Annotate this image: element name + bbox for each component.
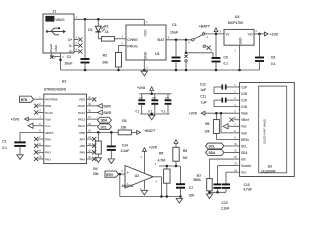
- svg-text:PA1: PA1: [45, 144, 51, 148]
- svg-text:PA15: PA15: [78, 104, 85, 108]
- svg-text:SCL: SCL: [241, 144, 247, 148]
- svg-text:4.7M: 4.7M: [158, 159, 166, 163]
- svg-text:SWC: SWC: [103, 104, 112, 108]
- svg-text:RES#: RES#: [241, 138, 249, 142]
- svg-text:Shield: Shield: [49, 44, 53, 53]
- svg-text:+2V8: +2V8: [270, 32, 278, 36]
- svg-text:Vbat: Vbat: [241, 112, 248, 116]
- svg-text:BTN: BTN: [21, 98, 28, 102]
- svg-text:R6: R6: [183, 149, 187, 153]
- svg-text:C5: C5: [152, 96, 156, 100]
- svg-text:VCC: VCC: [144, 29, 148, 37]
- svg-text:VI: VI: [225, 33, 228, 37]
- svg-text:C3: C3: [172, 23, 176, 27]
- svg-text:D1: D1: [88, 28, 92, 32]
- svg-text:SDA: SDA: [101, 119, 108, 123]
- svg-text:VBref: VBref: [241, 118, 250, 122]
- svg-text:2.2uF: 2.2uF: [121, 149, 131, 153]
- svg-text:0.1: 0.1: [271, 62, 276, 66]
- svg-text:SDA: SDA: [241, 151, 248, 155]
- svg-text:10k: 10k: [204, 129, 210, 133]
- svg-text:PA12: PA12: [78, 118, 85, 122]
- svg-text:10k: 10k: [121, 125, 127, 129]
- svg-text:R2: R2: [103, 54, 107, 58]
- svg-text:PB9: PB9: [45, 104, 51, 108]
- svg-text:0.1: 0.1: [2, 146, 7, 150]
- svg-text:GND: GND: [54, 44, 58, 51]
- svg-text:C7: C7: [189, 186, 193, 190]
- svg-text:SCL: SCL: [209, 144, 215, 148]
- svg-text:SWD: SWD: [103, 111, 112, 115]
- svg-text:PB0: PB0: [79, 131, 85, 135]
- svg-text:C2P: C2P: [241, 85, 248, 89]
- svg-text:PA4: PA4: [80, 157, 86, 161]
- svg-text:1uF: 1uF: [200, 88, 206, 92]
- svg-text:Vdd: Vdd: [45, 118, 51, 122]
- svg-text:2.2uF: 2.2uF: [221, 207, 231, 211]
- svg-text:C8: C8: [271, 56, 275, 60]
- svg-text:5G: 5G: [183, 156, 188, 160]
- svg-text:R3: R3: [122, 119, 126, 123]
- svg-text:BAT: BAT: [158, 38, 166, 42]
- svg-text:VO: VO: [248, 33, 253, 37]
- svg-text:C1P: C1P: [241, 99, 248, 103]
- svg-text:C9: C9: [165, 96, 169, 100]
- svg-text:C13: C13: [244, 183, 250, 187]
- svg-text:PC15: PC15: [45, 111, 53, 115]
- svg-text:AD8541: AD8541: [122, 184, 134, 188]
- svg-text:C14: C14: [122, 143, 128, 147]
- svg-text:PA6: PA6: [80, 144, 86, 148]
- svg-text:0.1: 0.1: [223, 62, 228, 66]
- svg-text:C2: C2: [67, 55, 71, 59]
- svg-text:GND: GND: [238, 37, 242, 45]
- svg-text:BTN: BTN: [106, 173, 113, 177]
- svg-text:+BATT: +BATT: [144, 129, 156, 133]
- svg-text:+2V8: +2V8: [11, 118, 19, 122]
- svg-text:C4: C4: [139, 96, 143, 100]
- svg-text:Vss: Vss: [241, 125, 247, 129]
- svg-text:C1: C1: [2, 139, 6, 143]
- svg-text:SCL: SCL: [101, 125, 107, 129]
- svg-text:MCP1700: MCP1700: [228, 21, 243, 25]
- svg-text:R1: R1: [104, 25, 108, 29]
- svg-text:0.1: 0.1: [161, 110, 165, 114]
- svg-text:20k: 20k: [102, 61, 108, 65]
- svg-text:1k: 1k: [105, 30, 109, 34]
- svg-text:D-: D-: [69, 44, 72, 48]
- svg-text:STM32G031F8: STM32G031F8: [44, 88, 66, 92]
- svg-text:D+: D+: [68, 38, 72, 42]
- svg-text:+2V8: +2V8: [149, 146, 157, 150]
- svg-text:+2V8: +2V8: [137, 86, 145, 90]
- svg-text:PA11: PA11: [78, 124, 85, 128]
- svg-text:Vcomh: Vcomh: [241, 164, 251, 168]
- svg-text:C6: C6: [223, 56, 227, 60]
- svg-text:D3: D3: [268, 164, 272, 168]
- svg-text:E2: E2: [62, 80, 66, 84]
- svg-text:R4: R4: [93, 167, 97, 171]
- svg-text:+BATT: +BATT: [199, 25, 211, 29]
- svg-text:560k: 560k: [193, 178, 200, 182]
- svg-text:PROG: PROG: [127, 45, 138, 49]
- svg-text:U2: U2: [135, 174, 139, 178]
- svg-text:J1: J1: [52, 10, 56, 14]
- svg-text:PA5: PA5: [80, 151, 86, 155]
- svg-text:PA7: PA7: [80, 137, 86, 141]
- svg-text:1uF: 1uF: [201, 101, 207, 105]
- svg-text:PA2: PA2: [45, 151, 51, 155]
- svg-text:PB7/PB8: PB7/PB8: [45, 98, 57, 102]
- svg-text:Vdd: Vdd: [241, 131, 247, 135]
- svg-text:PA13: PA13: [78, 111, 85, 115]
- svg-text:10uF: 10uF: [170, 30, 179, 34]
- svg-text:C10: C10: [222, 201, 228, 205]
- svg-text:C11: C11: [200, 95, 206, 99]
- svg-text:PA0: PA0: [45, 137, 51, 141]
- svg-text:C12: C12: [200, 83, 206, 87]
- svg-text:VBUS: VBUS: [55, 18, 65, 22]
- svg-text:C2N: C2N: [241, 92, 248, 96]
- svg-text:U1: U1: [155, 52, 160, 56]
- svg-text:10uF: 10uF: [64, 61, 73, 65]
- svg-text:Vcc: Vcc: [241, 171, 247, 175]
- svg-text:C1N: C1N: [241, 105, 248, 109]
- svg-text:R8: R8: [205, 122, 209, 126]
- svg-text:U3: U3: [235, 15, 240, 19]
- svg-text:OLED049: OLED049: [261, 169, 275, 173]
- svg-text:NRST: NRST: [45, 131, 53, 135]
- svg-text:CHRG: CHRG: [127, 38, 138, 42]
- svg-text:4.7uF: 4.7uF: [243, 187, 253, 191]
- svg-text:+2V8: +2V8: [189, 111, 197, 115]
- svg-text:OLED 0.49” 64x32: OLED 0.49” 64x32: [263, 119, 267, 144]
- svg-text:200: 200: [189, 194, 195, 198]
- svg-text:Vss: Vss: [45, 124, 51, 128]
- svg-text:0.1: 0.1: [135, 110, 139, 114]
- svg-text:R7: R7: [197, 174, 201, 178]
- svg-text:20k: 20k: [93, 172, 99, 176]
- svg-text:PB3: PB3: [79, 98, 85, 102]
- svg-text:SDA: SDA: [209, 151, 216, 155]
- svg-text:GND: GND: [144, 51, 148, 59]
- svg-text:R5: R5: [159, 152, 163, 156]
- svg-text:0.1: 0.1: [148, 110, 152, 114]
- svg-text:PA3: PA3: [45, 157, 51, 161]
